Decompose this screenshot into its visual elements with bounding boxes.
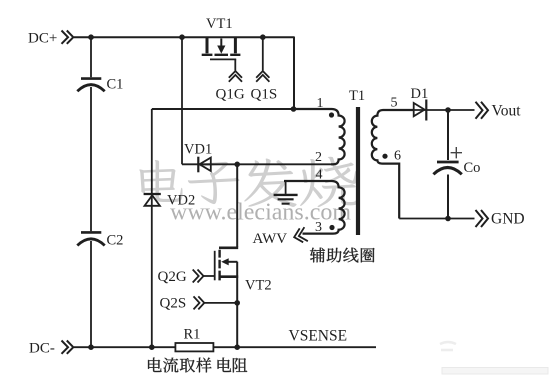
diode VD1 [197, 157, 199, 173]
diode VD2 [144, 193, 161, 195]
capacitor C2 [81, 231, 101, 234]
node rail-VT2 source [234, 344, 240, 350]
polarity dot pin6 [382, 154, 387, 159]
svg-text:Q2G: Q2G [158, 269, 187, 285]
wire: horizontal node wire y109 (VD2 top to pin1) [152, 108, 294, 110]
transformer T1 secondary winding (pins 5-6) [372, 110, 413, 219]
wire: Q1S drop [262, 37, 264, 70]
watermark big characters [139, 157, 362, 209]
connector Q1G [229, 71, 242, 82]
watermark bottom-right faint box [442, 368, 548, 375]
node Vout [445, 107, 451, 113]
node rail-Q1S [260, 34, 266, 40]
connector GND [476, 210, 489, 227]
transistor VT1 (MOSFET) [202, 37, 241, 71]
wire: C1/C2 branch vertical [90, 37, 92, 347]
transformer T1 primary winding (pins 1-2) [294, 109, 345, 164]
node rail-C2 [88, 344, 94, 350]
wire: VD2 branch vertical [151, 109, 153, 347]
svg-text:Q2S: Q2S [160, 296, 187, 312]
capacitor Co [447, 110, 449, 160]
node GND [445, 216, 451, 222]
label current sense resistor (CJK) [148, 358, 162, 372]
connector Q2S [194, 296, 205, 309]
polarity dot pin3 [329, 225, 334, 230]
wire: pin5 to Vout [413, 109, 475, 111]
wire: VD1 to pin2 horizontal [182, 163, 334, 165]
connector Vout [476, 102, 489, 119]
svg-text:DC+: DC+ [28, 31, 57, 47]
svg-text:Q1S: Q1S [251, 87, 278, 103]
svg-text:6: 6 [394, 149, 401, 164]
svg-text:Co: Co [464, 160, 481, 176]
svg-text:1: 1 [317, 96, 324, 111]
wire: DC+ top rail [74, 36, 294, 38]
svg-text:2: 2 [315, 150, 322, 165]
node rail-VD1 [179, 34, 185, 40]
svg-text:VSENSE: VSENSE [289, 328, 348, 345]
svg-text:VD2: VD2 [167, 193, 195, 209]
svg-text:C2: C2 [107, 233, 124, 249]
svg-text:Vout: Vout [492, 103, 522, 120]
svg-text:VD1: VD1 [184, 142, 212, 158]
T1 core [356, 107, 360, 235]
connector Q1S [256, 71, 269, 82]
svg-text:AWV: AWV [253, 231, 288, 247]
svg-text:C1: C1 [107, 77, 124, 93]
node VD1-VT2 drain [234, 162, 240, 168]
svg-text:www.elecians.com: www.elecians.com [170, 200, 351, 226]
svg-text:VT2: VT2 [245, 278, 272, 294]
capacitor C1 [81, 77, 101, 80]
wire: rail corner down to pin1 node [293, 37, 295, 110]
label auxiliary coil (CJK) [310, 248, 325, 263]
svg-text:T1: T1 [349, 88, 365, 104]
node rail-C1 [88, 34, 94, 40]
node rail-VD2 [149, 344, 155, 350]
svg-text:4: 4 [316, 168, 323, 183]
svg-text:D1: D1 [411, 86, 429, 102]
node Q2S [234, 300, 240, 306]
svg-text:VT1: VT1 [206, 16, 233, 32]
wire: bottom rail DC- / VSENSE [74, 346, 376, 348]
transistor VT2 (MOSFET) [203, 248, 239, 347]
wire: Q2S to source [204, 302, 238, 304]
diode D1 [414, 103, 425, 116]
ground symbol [285, 181, 287, 194]
svg-text:5: 5 [391, 96, 398, 111]
svg-text:R1: R1 [184, 327, 201, 343]
wire: GND rail [399, 218, 474, 220]
polarity dot pin1 [329, 112, 334, 117]
resistor R1 [175, 343, 213, 351]
connector Q2G [193, 270, 204, 283]
svg-text:Q1G: Q1G [216, 87, 245, 103]
wire: DC+ rail to VD1 vertical [181, 37, 183, 164]
svg-text:DC-: DC- [29, 341, 55, 357]
wire: VT2 drain vertical [236, 164, 238, 247]
svg-text:3: 3 [315, 220, 322, 235]
svg-text:GND: GND [491, 211, 525, 228]
transformer T1 auxiliary winding (pins 4-3) [284, 181, 345, 234]
node pin1 wire [291, 106, 297, 112]
